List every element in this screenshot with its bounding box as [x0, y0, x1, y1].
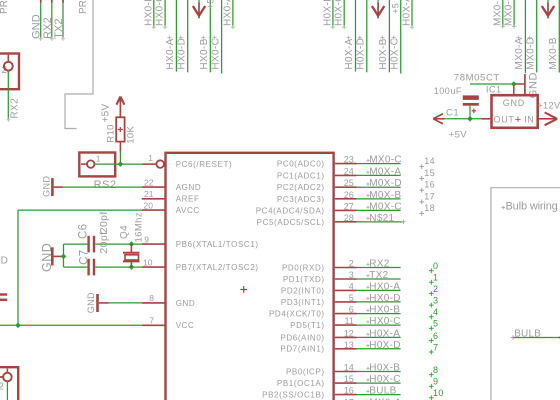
svg-text:BULB: BULB [369, 386, 396, 397]
svg-text:IN: IN [524, 115, 534, 125]
svg-text:17: 17 [424, 191, 435, 201]
svg-text:+5V: +5V [100, 103, 111, 122]
svg-text:PD6(AIN0): PD6(AIN0) [280, 333, 324, 342]
svg-text:GND: GND [503, 98, 525, 108]
svg-text:MX0-C: MX0-C [369, 155, 402, 166]
svg-text:M0X-D: M0X-D [369, 178, 402, 189]
svg-text:HX0-C: HX0-C [369, 316, 401, 327]
svg-text:18: 18 [424, 203, 435, 213]
svg-text:H0X-B: H0X-B [378, 38, 389, 69]
svg-text:VCC: VCC [176, 321, 195, 330]
svg-text:MX0-D: MX0-D [525, 37, 536, 70]
svg-text:HX0-A: HX0-A [369, 281, 400, 292]
svg-text:8: 8 [433, 365, 438, 375]
svg-text:H0X-A: H0X-A [369, 328, 400, 339]
svg-text:15: 15 [424, 168, 435, 178]
svg-text:H0X-C: H0X-C [369, 374, 401, 385]
svg-text:PR: PR [78, 0, 89, 14]
svg-text:HX0-D: HX0-D [176, 38, 187, 70]
svg-text:12: 12 [344, 328, 354, 338]
svg-text:+12V: +12V [537, 101, 560, 112]
svg-text:100uF: 100uF [434, 86, 462, 96]
svg-text:M0X-B: M0X-B [369, 190, 401, 201]
svg-text:+5: +5 [206, 0, 216, 9]
svg-text:C1: C1 [446, 107, 459, 118]
svg-text:3: 3 [349, 270, 354, 280]
svg-text:20pf: 20pf [98, 232, 110, 254]
svg-text:MX0-A: MX0-A [514, 37, 525, 69]
svg-text:TX2: TX2 [53, 18, 65, 38]
svg-text:HX0-B: HX0-B [369, 305, 400, 316]
svg-text:M0X-A: M0X-A [369, 166, 401, 177]
svg-text:C6: C6 [77, 224, 89, 239]
svg-text:28: 28 [344, 213, 354, 223]
svg-text:4: 4 [349, 281, 354, 291]
svg-text:+5: +5 [390, 3, 400, 14]
svg-text:15: 15 [344, 374, 354, 384]
svg-text:HX0-D: HX0-D [369, 293, 401, 304]
svg-text:HX0-A: HX0-A [165, 38, 176, 69]
svg-text:PC1(ADC1): PC1(ADC1) [277, 171, 325, 180]
svg-text:0: 0 [433, 261, 438, 271]
svg-text:H0X-B: H0X-B [322, 0, 333, 26]
svg-text:AGND: AGND [176, 183, 202, 192]
svg-text:PC2(ADC2): PC2(ADC2) [277, 183, 325, 192]
svg-text:25: 25 [344, 178, 354, 188]
svg-text:MX0-C: MX0-C [504, 0, 515, 26]
svg-text:Bulb wiring: Bulb wiring [506, 201, 558, 213]
svg-text:RX2: RX2 [369, 259, 389, 270]
svg-text:2: 2 [349, 259, 354, 269]
svg-text:IC1: IC1 [486, 84, 502, 94]
svg-text:9: 9 [144, 234, 149, 244]
svg-text:+5V: +5V [449, 129, 467, 140]
svg-text:7: 7 [149, 315, 154, 325]
svg-text:PD5(T1): PD5(T1) [290, 321, 325, 330]
svg-text:GND: GND [86, 292, 96, 313]
svg-text:5: 5 [349, 293, 354, 303]
svg-text:PC0(ADC0): PC0(ADC0) [277, 160, 325, 169]
svg-text:2: 2 [433, 284, 438, 294]
svg-text:PD3(INT1): PD3(INT1) [281, 298, 325, 307]
svg-text:13: 13 [344, 340, 354, 350]
svg-text:RX2: RX2 [42, 17, 54, 39]
svg-text:H0X-D: H0X-D [356, 38, 367, 70]
svg-text:PB6(XTAL1/TOSC1): PB6(XTAL1/TOSC1) [176, 240, 259, 249]
svg-text:+: + [515, 114, 521, 126]
svg-text:PC5(ADC5/SCL): PC5(ADC5/SCL) [257, 218, 325, 227]
svg-text:7: 7 [433, 342, 438, 352]
svg-text:24: 24 [344, 166, 354, 176]
svg-text:GND: GND [41, 176, 51, 197]
svg-text:5: 5 [433, 319, 438, 329]
svg-text:20: 20 [144, 200, 154, 210]
svg-text:PD1(TXD): PD1(TXD) [283, 275, 325, 284]
svg-text:PD0(RXD): PD0(RXD) [282, 263, 325, 272]
svg-text:PC3(ADC3): PC3(ADC3) [277, 195, 325, 204]
svg-text:HX0-C: HX0-C [210, 38, 221, 70]
svg-text:78M05CT: 78M05CT [454, 72, 500, 83]
svg-text:M0X-C: M0X-C [369, 201, 402, 212]
svg-text:H0X-A: H0X-A [402, 0, 413, 26]
svg-text:8: 8 [149, 293, 154, 303]
svg-text:HX0-B: HX0-B [143, 0, 154, 26]
svg-text:H0X-D: H0X-D [369, 340, 401, 351]
svg-text:27: 27 [344, 201, 354, 211]
svg-text:16: 16 [424, 180, 435, 190]
svg-text:PB2(SS/OC1B): PB2(SS/OC1B) [262, 391, 325, 400]
svg-text:21: 21 [144, 189, 154, 199]
svg-text:MX0-B: MX0-B [548, 37, 559, 69]
svg-text:11: 11 [344, 316, 353, 326]
svg-text:14: 14 [424, 156, 435, 166]
svg-text:Q4: Q4 [119, 225, 130, 239]
svg-text:26: 26 [344, 190, 354, 200]
svg-text:R10: R10 [106, 124, 117, 142]
svg-text:PD7(AIN1): PD7(AIN1) [280, 345, 324, 354]
svg-text:AREF: AREF [176, 195, 200, 204]
svg-text:C7: C7 [79, 250, 91, 265]
svg-text:H0X-B: H0X-B [369, 363, 400, 374]
svg-text:GND: GND [40, 243, 54, 272]
svg-text:14: 14 [344, 363, 354, 373]
svg-text:PR: PR [0, 0, 10, 14]
svg-text:20pf: 20pf [98, 211, 110, 233]
svg-text:D: D [1, 256, 8, 267]
svg-text:1: 1 [433, 273, 438, 283]
svg-text:2: 2 [0, 382, 4, 393]
svg-text:N$21: N$21 [369, 213, 394, 224]
svg-text:10: 10 [143, 258, 153, 268]
svg-text:6: 6 [433, 331, 438, 341]
svg-text:16: 16 [344, 386, 354, 396]
svg-text:10: 10 [433, 388, 444, 398]
svg-text:RS2: RS2 [94, 179, 117, 191]
svg-text:22: 22 [144, 177, 154, 187]
svg-text:PC4(ADC4/SDA): PC4(ADC4/SDA) [256, 206, 325, 215]
svg-text:RX2: RX2 [9, 98, 20, 119]
svg-text:AVCC: AVCC [176, 206, 200, 215]
svg-text:4: 4 [433, 307, 438, 317]
svg-text:PB1(OC1A): PB1(OC1A) [277, 379, 325, 388]
svg-text:PB0(ICP): PB0(ICP) [286, 367, 325, 376]
svg-text:H0X-C: H0X-C [334, 0, 345, 26]
svg-text:OUT: OUT [494, 115, 515, 125]
svg-text:10K: 10K [125, 126, 136, 144]
svg-text:3: 3 [433, 296, 438, 306]
svg-text:6: 6 [349, 305, 354, 315]
svg-text:1: 1 [96, 153, 101, 163]
svg-text:HX0-C: HX0-C [155, 0, 166, 26]
svg-text:TX2: TX2 [369, 270, 388, 281]
svg-text:MX0-B: MX0-B [492, 0, 503, 26]
svg-text:PB7(XTAL2/TOSC2): PB7(XTAL2/TOSC2) [176, 263, 259, 272]
svg-text:HX0-B: HX0-B [199, 38, 210, 69]
svg-text:H0X-C: H0X-C [389, 38, 400, 70]
svg-text:16Mhz: 16Mhz [133, 212, 144, 243]
svg-text:PD2(INT0): PD2(INT0) [281, 286, 325, 295]
svg-text:PC6(/RESET): PC6(/RESET) [176, 160, 233, 169]
svg-text:GND: GND [176, 299, 196, 308]
svg-text:1: 1 [148, 153, 153, 163]
svg-text:PD4(XCK/T0): PD4(XCK/T0) [269, 310, 325, 319]
svg-text:HX0-A: HX0-A [222, 0, 233, 26]
svg-text:23: 23 [344, 155, 354, 165]
svg-text:9: 9 [433, 377, 438, 387]
svg-text:H0X-A: H0X-A [344, 38, 355, 69]
